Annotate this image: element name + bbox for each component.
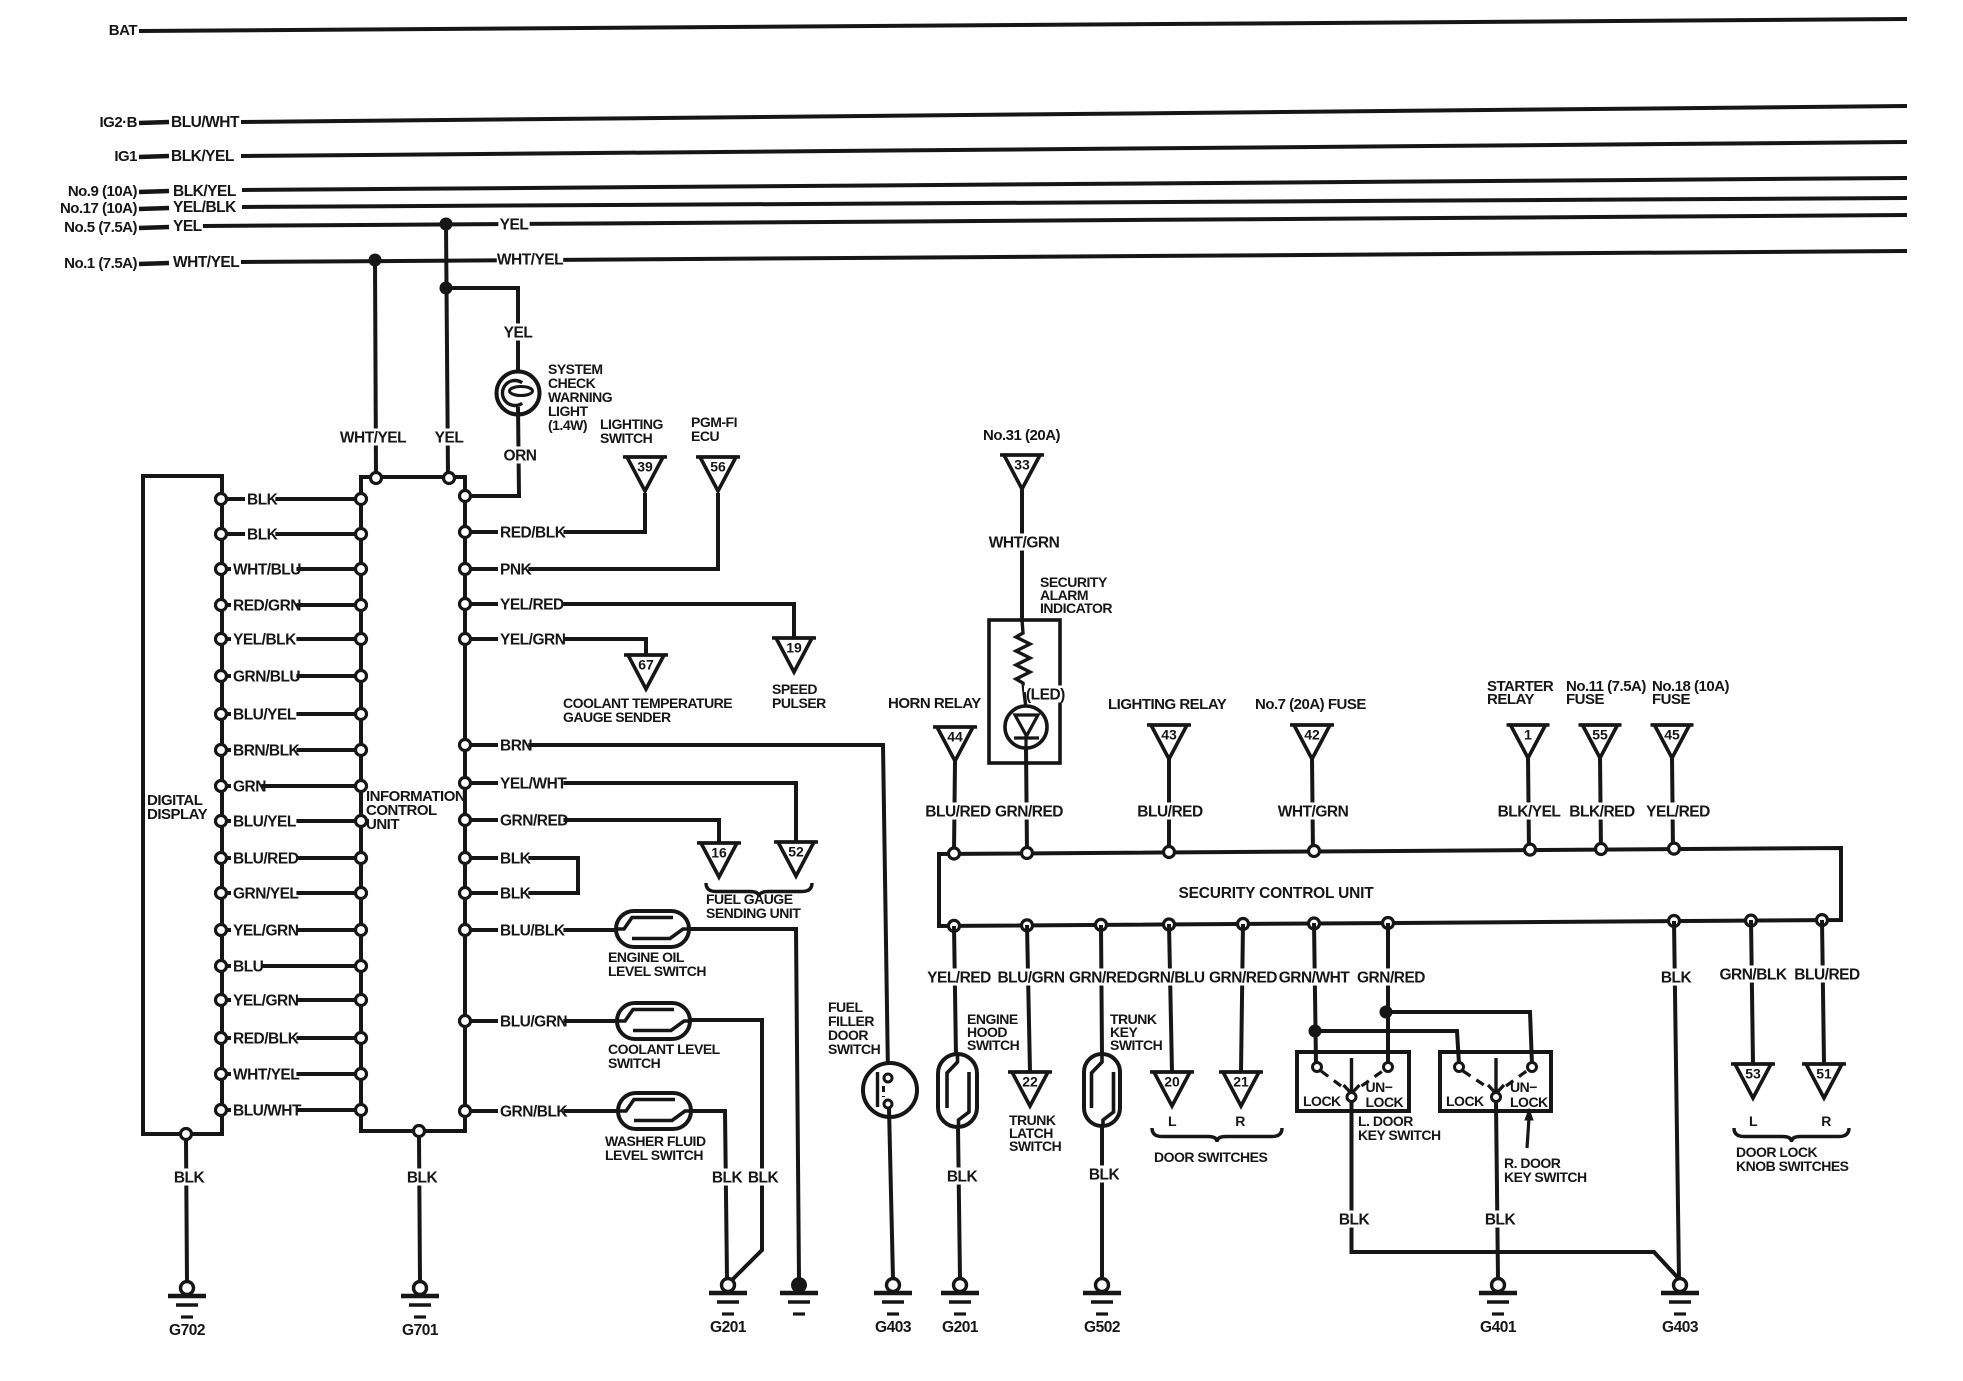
label BLK/YEL [1496,802,1562,819]
svg-text:G401: G401 [1480,1319,1517,1336]
wire GRN display-to-ICU row [227,784,356,788]
label WHT/YEL on drop [340,428,406,445]
switch COOLANT LEVEL SWITCH [617,1003,690,1039]
switch ENGINE HOOD SWITCH [938,1054,977,1127]
connector 56 PGM-FI ECU [696,455,740,459]
svg-text:UNIT: UNIT [366,816,399,833]
svg-text:No.1 (7.5A): No.1 (7.5A) [64,255,137,272]
wire starter relay to SCU [1528,757,1529,851]
wire ORN from lamp to ICU [472,407,519,496]
pin ICU right BLU/GRN [460,1016,471,1027]
svg-text:LOCK: LOCK [1510,1094,1548,1110]
pin ICU right BLU/BLK [460,925,471,936]
svg-text:YEL: YEL [504,325,533,342]
pin ICU left BLK [356,529,367,540]
connector 67 COOLANT TEMPERATURE GAUGE SENDER [624,653,668,657]
svg-text:BRN/BLK: BRN/BLK [233,743,301,760]
svg-text:L: L [1749,1113,1758,1129]
pin display WHT/BLU [216,564,227,575]
svg-text:BLK: BLK [947,1169,979,1186]
pin ICU left GRN/YEL [356,888,367,899]
wire BLU/BLK to engine oil level switch [471,928,618,932]
wire display BLK to G702 [186,1140,187,1282]
wire YEL vertical drop [446,224,448,475]
wire No.7 fuse to SCU [1312,759,1313,852]
pin SCU top [1669,843,1680,854]
pin ICU right RED/BLK [460,527,471,538]
wire BLK display-to-ICU row [227,532,356,536]
svg-text:1: 1 [1524,727,1532,743]
svg-text:WHT/GRN: WHT/GRN [989,535,1060,552]
wire PNK to PGM-FI ECU [471,493,718,569]
wire GRN/RED from indicator to SCU [1026,748,1027,852]
svg-text:67: 67 [638,657,654,673]
pin ICU left BLU/WHT [356,1105,367,1116]
svg-text:FUSE: FUSE [1566,691,1605,708]
wire GRN/YEL display-to-ICU row [227,891,356,895]
svg-text:(1.4W): (1.4W) [548,417,587,433]
connector 55 No.11 fuse [1579,723,1622,727]
svg-text:BLK: BLK [247,527,279,544]
ground G201 left [722,1279,735,1292]
svg-text:YEL/GRN: YEL/GRN [233,993,299,1010]
label BLK coolant wire [747,1168,778,1185]
wire BLU/GRN to trunk latch switch [1027,925,1030,1072]
label BLK display ground wire [173,1168,204,1185]
svg-text:L: L [1168,1113,1177,1129]
wire BAT bus [139,19,1907,31]
wire lighting relay to SCU [1167,759,1171,852]
pin ICU left YEL/GRN [356,995,367,1006]
svg-text:KEY SWITCH: KEY SWITCH [1504,1169,1587,1185]
box INFORMATION CONTROL UNIT [361,477,465,1131]
svg-text:G201: G201 [710,1319,747,1336]
pin SCU top [1022,848,1033,859]
svg-text:WHT/GRN: WHT/GRN [1278,804,1349,821]
pin SCU bottom [949,920,960,931]
svg-text:G702: G702 [169,1322,205,1339]
svg-text:GRN/RED: GRN/RED [1069,970,1137,987]
pin display BLU/YEL [216,709,227,720]
ground unnamed engine-oil [791,1277,807,1293]
pin ICU right YEL/RED [460,599,471,610]
svg-text:GRN/RED: GRN/RED [500,813,568,830]
pin display GRN [216,781,227,792]
svg-text:BLK: BLK [748,1170,780,1187]
label BLK [946,1167,977,1184]
pin display BLU/WHT [216,1105,227,1116]
label BLK washer wire [711,1168,742,1185]
brace door switches [1152,1128,1282,1142]
pin display BLU/RED [216,853,227,864]
wire engine oil switch to ground [687,929,799,1279]
svg-text:No.31 (20A): No.31 (20A) [983,427,1061,444]
pin ICU right BRN [460,740,471,751]
pin ICU right ORN [460,491,471,502]
svg-text:BLU/WHT: BLU/WHT [171,114,240,131]
pin SCU bottom [1817,915,1828,926]
pin display GRN/BLU [216,671,227,682]
wire BRN/BLK display-to-ICU row [227,748,356,752]
wire No.9 stub [139,191,169,192]
svg-text:PULSER: PULSER [772,695,826,711]
svg-text:No.17 (10A): No.17 (10A) [60,200,138,217]
wire GRN/RED to door switch R [1241,924,1243,1072]
svg-text:KNOB SWITCHES: KNOB SWITCHES [1736,1158,1849,1174]
svg-text:BLK/YEL: BLK/YEL [1498,804,1561,821]
pin ICU right GRN/BLK [460,1106,471,1117]
junction dot GRN/WHT branch [1309,1025,1322,1038]
svg-text:BLU/GRN: BLU/GRN [500,1014,567,1031]
label YEL on lamp wire [502,323,533,340]
wire L door key switch BLK to G403 [1352,1102,1680,1279]
wire No.17 stub [139,208,169,209]
pin SCU top [1525,844,1536,855]
connector 19 SPEED PULSER [772,636,816,640]
svg-text:G701: G701 [402,1322,439,1339]
svg-text:PNK: PNK [500,562,533,579]
connector 53 door lock knob switch L [1731,1062,1775,1066]
ground G401 [1492,1279,1505,1292]
pin SCU bottom [1309,918,1320,929]
svg-text:BLU/GRN: BLU/GRN [997,970,1064,987]
svg-text:WHT/BLU: WHT/BLU [233,562,301,579]
svg-text:BLK: BLK [500,886,532,903]
pin ICU top WHT/YEL [371,473,382,484]
svg-text:SWITCH: SWITCH [1009,1138,1062,1154]
wire YEL/RED to speed pulser [471,604,794,638]
wire coolant level switch to ground G201 [688,1020,762,1281]
svg-text:LIGHTING RELAY: LIGHTING RELAY [1108,696,1227,713]
label GRN/BLK [1720,965,1786,982]
svg-text:GRN/BLK: GRN/BLK [500,1104,568,1121]
junction dot No.5/YEL drop [440,218,453,231]
pin display bottom [181,1129,192,1140]
svg-text:BLK: BLK [1089,1167,1121,1184]
ground G502 [1096,1279,1109,1292]
svg-text:R: R [1235,1113,1245,1129]
switch TRUNK KEY SWITCH [1084,1054,1120,1126]
svg-text:51: 51 [1816,1066,1832,1082]
pin ICU left BLU/YEL [356,709,367,720]
connector 16 fuel gauge [697,841,741,845]
svg-text:19: 19 [786,640,802,656]
pin SCU top [1164,847,1175,858]
svg-text:33: 33 [1014,457,1030,473]
pin ICU left RED/GRN [356,600,367,611]
label BLU/RED [1137,802,1203,819]
pin ICU left WHT/YEL [356,1069,367,1080]
pin display YEL/GRN [216,995,227,1006]
junction dot YEL branch [440,282,453,295]
svg-text:BLU: BLU [233,959,264,976]
wire GRN/BLK to washer fluid level switch [471,1109,620,1113]
svg-text:BLK: BLK [500,851,532,868]
svg-text:BLU/YEL: BLU/YEL [233,707,296,724]
svg-text:LOCK: LOCK [1366,1094,1404,1110]
svg-text:WHT/YEL: WHT/YEL [497,252,563,269]
svg-text:BLK: BLK [407,1170,439,1187]
pin SCU bottom [1022,920,1033,931]
wire IG2-B stub [139,122,169,123]
svg-text:YEL: YEL [173,218,202,235]
svg-text:21: 21 [1233,1074,1249,1090]
svg-text:WHT/YEL: WHT/YEL [173,254,239,271]
junction dot GRN/RED branch [1380,1006,1393,1019]
svg-text:G502: G502 [1084,1319,1120,1336]
svg-text:BLK: BLK [174,1170,206,1187]
svg-text:42: 42 [1304,727,1320,743]
wire GRN/RED to L door key switch [1386,923,1390,1064]
label BLK/RED [1569,802,1635,819]
svg-text:LEVEL SWITCH: LEVEL SWITCH [605,1147,703,1163]
switch L DOOR KEY SWITCH [1297,1052,1409,1111]
svg-text:HORN RELAY: HORN RELAY [888,695,981,712]
svg-text:LEVEL SWITCH: LEVEL SWITCH [608,963,706,979]
svg-text:YEL/RED: YEL/RED [1646,804,1710,821]
label BLK [1484,1210,1515,1227]
svg-text:BLU/RED: BLU/RED [1137,804,1203,821]
pin ICU left YEL/BLK [356,634,367,645]
wire BLU/RED to knob switch R [1822,920,1824,1064]
pin ICU left WHT/BLU [356,564,367,575]
pin display BLU [216,961,227,972]
pin ICU left RED/BLK [356,1033,367,1044]
connector 1 STARTER RELAY [1507,723,1550,727]
ground G701 [414,1282,427,1295]
label GRN/RED [1210,968,1276,985]
pin display RED/GRN [216,600,227,611]
svg-text:RED/BLK: RED/BLK [233,1031,300,1048]
label YEL/RED [1645,802,1711,819]
switch R DOOR KEY SWITCH [1440,1052,1551,1111]
svg-text:SWITCH: SWITCH [828,1041,881,1057]
svg-text:SECURITY CONTROL UNIT: SECURITY CONTROL UNIT [1178,885,1374,902]
pin ICU right GRN/RED [460,815,471,826]
wire BRN to fuel filler door switch [471,745,888,1075]
connector 43 LIGHTING RELAY [1147,723,1191,727]
pin ICU right YEL/WHT [460,778,471,789]
label WHT/GRN [991,533,1057,550]
wire WHT/YEL display-to-ICU row [227,1072,356,1076]
wire YEL/GRN to coolant temp sender [471,639,646,655]
label BLK [1660,968,1691,985]
wire BLU/RED display-to-ICU row [227,856,356,860]
svg-text:56: 56 [710,459,726,475]
connector 42 No.7 fuse [1290,723,1334,727]
svg-text:UN−: UN− [1366,1079,1393,1095]
label ORN [504,446,535,463]
resistor in alarm indicator [1016,620,1030,692]
wire No.18 fuse to SCU [1672,757,1673,851]
wire RED/BLK display-to-ICU row [227,1036,356,1040]
label BLK [1338,1210,1369,1227]
wire No.9 bus [242,178,1907,190]
wire ICU BLK to G701 [419,1137,420,1282]
box security alarm indicator [989,620,1060,763]
pin display BLK [216,494,227,505]
pin ICU left BLU/RED [356,853,367,864]
pin display BRN/BLK [216,745,227,756]
svg-text:LOCK: LOCK [1303,1093,1341,1109]
svg-text:BLK/YEL: BLK/YEL [173,183,236,200]
svg-text:No.5 (7.5A): No.5 (7.5A) [64,219,137,236]
wire WHT/GRN from connector 33 [1020,489,1024,622]
pin ICU left BLK [356,494,367,505]
wire No.1 stub [139,263,169,264]
pin display YEL/BLK [216,634,227,645]
connector 20 door switch L [1150,1070,1194,1074]
svg-text:RED/BLK: RED/BLK [500,525,567,542]
label BLU/RED [1794,965,1860,982]
svg-text:SWITCH: SWITCH [967,1037,1020,1053]
pin SCU bottom [1238,919,1249,930]
label R. DOOR KEY SWITCH with arrow [1527,1118,1529,1148]
svg-text:GRN/WHT: GRN/WHT [1279,970,1351,987]
wire YEL/GRN display-to-ICU row [227,928,356,932]
wire fuel filler switch to G403 [889,1108,893,1279]
pin SCU top [1596,844,1607,855]
svg-text:YEL/RED: YEL/RED [500,597,564,614]
wire RED/GRN display-to-ICU row [227,603,356,607]
svg-text:43: 43 [1161,727,1177,743]
wire BLU/YEL display-to-ICU row [227,819,356,823]
svg-text:20: 20 [1164,1074,1180,1090]
wire GRN/WHT branch to R door key switch [1315,1031,1459,1064]
pin display RED/BLK [216,1033,227,1044]
wire IG2-B bus [241,106,1907,122]
svg-text:GRN/YEL: GRN/YEL [233,886,298,903]
svg-text:G201: G201 [942,1319,979,1336]
wire YEL/RED to engine hood switch [954,926,956,1056]
wire GRN/BLU to door switch L [1169,924,1172,1072]
svg-text:UN−: UN− [1510,1079,1537,1095]
switch ENGINE OIL LEVEL SWITCH [616,911,689,947]
pin SCU bottom [1383,918,1394,929]
svg-text:BLK/RED: BLK/RED [1569,804,1635,821]
svg-text:IG2·B: IG2·B [99,114,137,131]
connector 33 No.31 fuse [1000,453,1044,457]
svg-text:No.7 (20A) FUSE: No.7 (20A) FUSE [1255,696,1366,713]
wire IG1 stub [139,156,169,157]
svg-text:55: 55 [1592,727,1608,743]
svg-text:GRN/BLK: GRN/BLK [1719,967,1787,984]
pin ICU left YEL/GRN [356,925,367,936]
ground G702 [181,1282,194,1295]
svg-text:ECU: ECU [691,428,719,444]
svg-text:WHT/YEL: WHT/YEL [233,1067,299,1084]
svg-text:45: 45 [1664,727,1680,743]
wire BLU display-to-ICU row [227,964,356,968]
wire No.5 stub [139,227,169,228]
label WHT/YEL inline [497,250,563,267]
connector 51 door lock knob switch R [1802,1062,1846,1066]
svg-text:BLK: BLK [1485,1212,1517,1229]
svg-text:BLK: BLK [712,1170,744,1187]
label YEL on drop [433,428,464,445]
pin ICU right PNK [460,564,471,575]
svg-text:BLK: BLK [247,492,279,509]
svg-text:BLU/RED: BLU/RED [233,851,299,868]
pin SCU top [1309,846,1320,857]
lamp SYSTEM CHECK WARNING LIGHT [497,372,540,415]
label (LED) [1024,685,1072,702]
svg-text:22: 22 [1022,1074,1038,1090]
wire BLK-BLK loop [471,858,578,893]
svg-text:BRN: BRN [500,738,532,755]
connector 44 HORN RELAY [933,725,977,729]
pin display BLU/YEL [216,816,227,827]
svg-text:52: 52 [788,844,804,860]
wire GRN/BLK to knob switch L [1751,920,1753,1064]
wire GRN/BLU display-to-ICU row [227,674,356,678]
svg-text:ORN: ORN [504,448,537,465]
label BLK [1088,1165,1119,1182]
label GRN/RED [1358,968,1424,985]
svg-text:RED/GRN: RED/GRN [233,598,301,615]
svg-text:BAT: BAT [109,22,138,39]
wire WHT/YEL vertical drop [375,260,376,475]
connector 21 door switch R [1219,1070,1263,1074]
svg-text:INDICATOR: INDICATOR [1040,600,1112,616]
pin SCU bottom [1096,919,1107,930]
pin ICU bottom [414,1126,425,1137]
wire YEL/GRN display-to-ICU row [227,998,356,1002]
ground G201 middle [954,1279,967,1292]
svg-text:No.9 (10A): No.9 (10A) [68,183,138,200]
svg-text:BLU/RED: BLU/RED [1794,967,1860,984]
wire WHT/BLU display-to-ICU row [227,567,356,571]
wire BLU/GRN to coolant level switch [471,1019,619,1023]
ground G403 left [887,1279,900,1292]
svg-text:IG1: IG1 [114,148,137,165]
svg-text:WHT/YEL: WHT/YEL [340,430,406,447]
LED security alarm indicator [1024,692,1026,708]
svg-text:G403: G403 [1662,1319,1699,1336]
pin SCU bottom [1164,919,1175,930]
wire GRN/RED to trunk key switch [1101,925,1102,1056]
svg-text:BLK/YEL: BLK/YEL [171,148,234,165]
label GRN/RED [996,802,1062,819]
pin ICU left BLU/YEL [356,816,367,827]
wire YEL branch to warning light [446,288,518,380]
wire washer switch to ground G201 [689,1111,727,1279]
pin ICU right BLK lower [460,888,471,899]
wire GRN/RED branch to R door key switch [1386,1012,1532,1064]
label BLU/RED [925,802,991,819]
wire R door key switch BLK to G401 [1496,1102,1498,1279]
label GRN/BLU [1138,968,1204,985]
svg-text:GRN: GRN [233,779,266,796]
wire YEL/BLK display-to-ICU row [227,637,356,641]
svg-text:YEL/BLK: YEL/BLK [233,632,297,649]
svg-text:GRN/BLU: GRN/BLU [1137,970,1204,987]
svg-text:YEL/RED: YEL/RED [927,970,991,987]
svg-text:DISPLAY: DISPLAY [147,806,208,823]
pin ICU left BLU [356,961,367,972]
label BLK ICU ground wire [406,1168,437,1185]
svg-text:LOCK: LOCK [1446,1093,1484,1109]
svg-text:SWITCH: SWITCH [1110,1037,1163,1053]
svg-text:GAUGE SENDER: GAUGE SENDER [563,709,671,725]
connector 22 TRUNK LATCH SWITCH [1008,1070,1052,1074]
pin ICU right YEL/GRN [460,634,471,645]
pin ICU right BLK upper [460,853,471,864]
svg-text:BLK: BLK [1339,1212,1371,1229]
svg-text:BLU/BLK: BLU/BLK [500,923,566,940]
label GRN/WHT [1281,968,1347,985]
wire BLU/WHT display-to-ICU row [227,1108,356,1112]
